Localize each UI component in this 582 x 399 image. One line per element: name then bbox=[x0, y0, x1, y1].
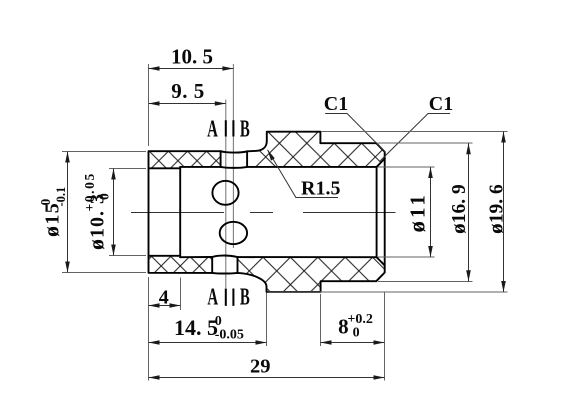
dimension phi10.3 bbox=[109, 168, 146, 170]
dimension phi15 bbox=[62, 151, 146, 153]
bore step at x=180 bbox=[179, 167, 181, 257]
hatch fine top-left band bbox=[149, 151, 221, 168]
svg-text:9. 5: 9. 5 bbox=[171, 79, 205, 103]
svg-text:C1: C1 bbox=[324, 93, 348, 115]
hatch coarse top-right region bbox=[247, 132, 385, 167]
dimension 29 bbox=[149, 377, 385, 379]
datum line B (thin vertical) bbox=[232, 64, 234, 248]
svg-text:A: A bbox=[207, 284, 218, 310]
dimension 14.5 0/-0.05 bbox=[266, 293, 268, 346]
bore top line bbox=[149, 167, 377, 168]
cross hole circle bottom bbox=[220, 222, 247, 244]
svg-text:ø11: ø11 bbox=[405, 192, 430, 232]
svg-text:-0.1: -0.1 bbox=[54, 187, 68, 207]
datum bars top bbox=[226, 120, 234, 136]
bore chamfer top right bbox=[377, 159, 385, 167]
hatch fine bottom-left band bbox=[149, 256, 213, 273]
datum line A (thin vertical) bbox=[225, 100, 227, 288]
dimension phi11 bbox=[378, 166, 435, 168]
cross hole circle top bbox=[212, 181, 238, 205]
svg-text:+0.05: +0.05 bbox=[82, 172, 97, 211]
svg-text:+0.2: +0.2 bbox=[347, 312, 372, 327]
bore bottom line bbox=[149, 256, 377, 258]
svg-text:0: 0 bbox=[38, 199, 53, 206]
svg-text:0: 0 bbox=[353, 326, 360, 341]
bore edge seen through (vertical) bbox=[376, 167, 378, 257]
hatch coarse bottom-right region bbox=[238, 257, 385, 292]
dimension phi19.6 bbox=[322, 131, 508, 133]
svg-text:10. 5: 10. 5 bbox=[171, 44, 213, 68]
svg-text:ø16. 9: ø16. 9 bbox=[446, 184, 470, 234]
bore chamfer bottom right bbox=[377, 257, 385, 265]
dimension 9.5 line bbox=[149, 103, 226, 105]
svg-text:0: 0 bbox=[97, 193, 112, 200]
svg-text:B: B bbox=[240, 116, 250, 142]
svg-text:R1.5: R1.5 bbox=[301, 177, 340, 199]
svg-text:A: A bbox=[207, 116, 218, 142]
svg-text:-0.05: -0.05 bbox=[215, 328, 244, 343]
svg-text:14. 5: 14. 5 bbox=[174, 315, 218, 340]
svg-text:B: B bbox=[240, 284, 250, 310]
svg-text:ø19. 6: ø19. 6 bbox=[484, 184, 508, 234]
dimension 4 bbox=[148, 277, 150, 381]
dimension 8 +0.2/0 bbox=[320, 294, 322, 346]
groove edge verticals top bbox=[221, 151, 248, 167]
centerline bbox=[131, 212, 396, 214]
part outer profile bbox=[149, 132, 385, 292]
dimension 10.5 line bbox=[149, 68, 234, 70]
groove edge verticals bottom bbox=[212, 257, 237, 273]
svg-text:29: 29 bbox=[250, 356, 271, 378]
svg-text:4: 4 bbox=[159, 286, 169, 308]
svg-text:C1: C1 bbox=[429, 93, 453, 115]
extension line left face (top, for 10.5/9.5) bbox=[148, 64, 150, 146]
dimension phi16.9 bbox=[378, 142, 473, 144]
